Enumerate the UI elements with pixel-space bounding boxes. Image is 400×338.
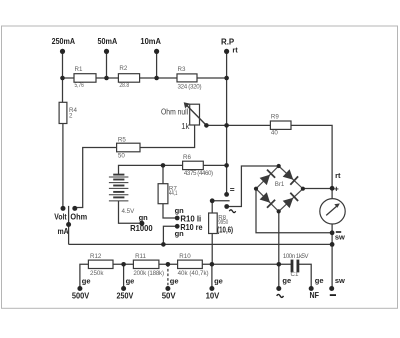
- junction bus sw node: [330, 242, 335, 247]
- junction minus node: [330, 230, 335, 235]
- resistor R7: [158, 184, 168, 204]
- svg-text:Volt: Volt: [54, 212, 66, 222]
- svg-text:ge: ge: [82, 276, 91, 285]
- resistor R10: [178, 260, 203, 268]
- svg-text:R12: R12: [90, 253, 102, 260]
- wire bridge right to plus: [303, 188, 332, 190]
- svg-text:rt: rt: [232, 46, 238, 55]
- resistor R1: [74, 74, 96, 83]
- wire ac contact to bridge top: [227, 166, 279, 207]
- meter M1: [320, 199, 345, 224]
- wire R10 re to bus: [163, 226, 177, 244]
- svg-text:C1: C1: [291, 271, 299, 278]
- switch label ac: [229, 210, 235, 213]
- svg-text:28.8: 28.8: [119, 82, 129, 89]
- capacitor C1 100n 1k5V: [291, 260, 294, 273]
- junction wiper node: [204, 123, 209, 128]
- junction R9 feed node: [224, 123, 229, 128]
- junction R3 right node: [224, 76, 229, 81]
- wire 10V drop: [211, 264, 213, 286]
- diode D3 left-to-bottom: [260, 192, 276, 208]
- junction R1 left node: [60, 76, 65, 81]
- wire R4 bottom to Volt terminal: [62, 124, 64, 208]
- wire mA column: [68, 206, 70, 245]
- battery 4.5V: [109, 175, 128, 201]
- junction 10V node: [210, 262, 215, 267]
- resistor R9: [270, 121, 291, 129]
- wire divider chain: [80, 264, 291, 286]
- terminal Ohm dot: [72, 206, 77, 211]
- terminal R1000 gn dot: [139, 221, 144, 226]
- svg-text:50V: 50V: [162, 290, 176, 300]
- svg-text:324 (320): 324 (320): [178, 84, 202, 91]
- wire R8 bottom: [211, 234, 213, 265]
- terminal 500V dot: [77, 286, 82, 291]
- wire switch pole to R8: [211, 201, 213, 213]
- svg-text:1k: 1k: [181, 122, 189, 131]
- resistor R5: [117, 143, 140, 152]
- wire R9 right to plus column: [291, 125, 332, 198]
- svg-text:sw: sw: [335, 276, 345, 285]
- svg-text:(10,6): (10,6): [217, 224, 233, 234]
- terminal R.P dot: [224, 49, 229, 54]
- resistor R3: [177, 74, 197, 82]
- junction R6 right node: [224, 163, 229, 168]
- wire bottom bus: [69, 243, 332, 245]
- terminal 50mA dot: [104, 49, 109, 54]
- potentiometer Ohm null 1k: [190, 104, 200, 125]
- diode D1 left-to-top: [260, 170, 276, 186]
- junction bus R10re node: [161, 242, 166, 247]
- svg-text:4.5V: 4.5V: [122, 208, 136, 215]
- svg-text:R1: R1: [75, 66, 83, 73]
- svg-text:44,1: 44,1: [169, 190, 178, 197]
- terminal 50V dot: [165, 286, 170, 291]
- svg-text:2: 2: [69, 113, 73, 120]
- terminal 250mA dot: [60, 49, 65, 54]
- svg-text:Br1: Br1: [275, 181, 285, 188]
- terminal ac dot: [276, 286, 281, 291]
- terminal mA dot: [66, 222, 71, 227]
- wire R7 bottom to R10 li: [163, 204, 177, 218]
- svg-text:R11: R11: [135, 253, 146, 260]
- terminal 10mA dot: [154, 49, 159, 54]
- svg-text:R2: R2: [119, 65, 127, 72]
- svg-text:R5: R5: [118, 137, 126, 144]
- diode D2 top-to-right: [283, 169, 298, 184]
- wire 250V drop: [123, 264, 125, 286]
- svg-text:ge: ge: [126, 276, 135, 285]
- svg-text:R6: R6: [183, 154, 191, 161]
- resistor R12: [88, 260, 113, 268]
- junction 50V node: [166, 262, 171, 267]
- junction plus node: [330, 186, 335, 191]
- terminal Volt dot: [61, 206, 66, 211]
- junction R7 top node: [161, 163, 166, 168]
- terminal R10 li gn dot: [175, 216, 180, 221]
- terminal 10V dot: [209, 286, 214, 291]
- switch S1 ac contact dot: [224, 204, 229, 209]
- wire battery bottom to gn: [119, 201, 142, 223]
- wire cap right to NF: [298, 264, 312, 286]
- svg-text:10V: 10V: [206, 290, 220, 300]
- junction 50mA node: [104, 76, 109, 81]
- svg-text:ge: ge: [214, 276, 223, 285]
- svg-text:sw: sw: [335, 233, 345, 242]
- switch S1 pole dot: [210, 198, 215, 203]
- corner dots: [277, 164, 281, 168]
- wire 50V drop dashed: [167, 264, 169, 286]
- wire 50mA drop: [106, 51, 108, 78]
- terminal NF dot: [309, 286, 314, 291]
- wire R.P main vertical: [226, 51, 228, 194]
- diode D4 bottom-to-right: [283, 193, 298, 208]
- svg-text:250k: 250k: [90, 270, 104, 277]
- svg-text:R10: R10: [179, 253, 191, 260]
- svg-text:R1000: R1000: [130, 223, 153, 233]
- svg-text:40: 40: [271, 129, 278, 136]
- svg-text:10mA: 10mA: [140, 36, 161, 46]
- svg-text:250V: 250V: [117, 290, 134, 300]
- wire R6 right: [203, 164, 226, 166]
- junction C1 left node: [277, 262, 282, 267]
- wire bridge left to minus: [256, 189, 332, 233]
- svg-text:5,76: 5,76: [75, 82, 85, 89]
- wire Ohm column from R5: [75, 148, 117, 209]
- svg-text:ge: ge: [282, 276, 291, 285]
- svg-text:500V: 500V: [72, 290, 90, 300]
- terminal sw dot: [329, 286, 334, 291]
- switch S1 dc contact dot: [224, 192, 229, 197]
- svg-text:4375 (4460): 4375 (4460): [184, 170, 213, 177]
- bridge rectifier Br1: [254, 164, 305, 214]
- resistor R6: [183, 161, 204, 169]
- wire 250mA terminal drop to R4: [62, 51, 64, 102]
- svg-text:NF: NF: [310, 290, 320, 300]
- svg-text:=: =: [230, 185, 235, 195]
- svg-text:ge: ge: [315, 276, 324, 285]
- svg-text:100n 1k5V: 100n 1k5V: [283, 253, 309, 260]
- wire bridge bottom to ac terminal: [278, 211, 280, 286]
- resistor R4: [59, 102, 67, 123]
- wire R7 top: [162, 165, 164, 183]
- svg-text:gn: gn: [175, 229, 185, 238]
- svg-text:R9: R9: [271, 113, 279, 120]
- svg-text:ge: ge: [170, 276, 179, 285]
- terminal R10 re gn dot: [175, 224, 180, 229]
- svg-text:Ohm: Ohm: [70, 212, 87, 222]
- svg-text:rt: rt: [335, 171, 341, 180]
- svg-text:R3: R3: [178, 66, 186, 73]
- svg-text:+: +: [334, 184, 339, 194]
- svg-text:200k (188k): 200k (188k): [133, 270, 164, 277]
- svg-text:50mA: 50mA: [98, 36, 118, 46]
- resistor R2: [118, 74, 139, 83]
- terminal 250V dot: [121, 286, 126, 291]
- wire pot bottom to R5: [140, 125, 195, 148]
- wire 10mA drop: [156, 51, 158, 78]
- svg-text:250mA: 250mA: [52, 36, 75, 46]
- wire battery top rail: [119, 165, 183, 174]
- wire top rail: [63, 77, 227, 79]
- wire meter to sw terminal: [331, 224, 333, 286]
- resistor R8: [209, 213, 218, 234]
- svg-text:gn: gn: [139, 213, 149, 222]
- svg-text:50: 50: [118, 153, 125, 160]
- svg-text:mA: mA: [58, 226, 69, 236]
- svg-text:40k (40,7k): 40k (40,7k): [178, 270, 209, 277]
- wire switch blade: [212, 200, 229, 202]
- wire wiper to R9: [206, 124, 270, 126]
- junction 10mA node: [154, 76, 159, 81]
- resistor R11: [133, 260, 159, 268]
- junction 250V node: [121, 262, 126, 267]
- node label minus sw: [336, 231, 341, 233]
- svg-text:Ohm null: Ohm null: [161, 107, 188, 116]
